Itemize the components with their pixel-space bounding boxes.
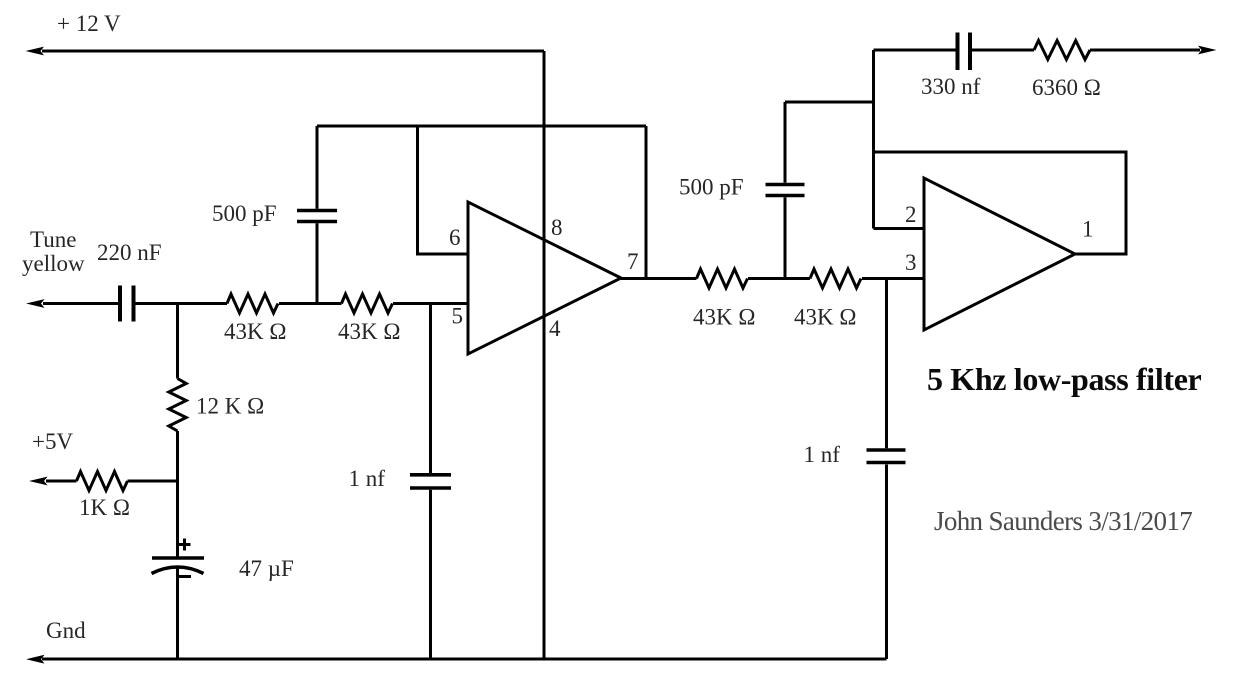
wire feedback riser [645, 126, 648, 279]
wire to pin 6 [418, 126, 469, 254]
svg-text:6: 6 [449, 225, 461, 250]
arrowhead +12V rail [26, 47, 45, 56]
wire R2 to op-amp U1 pin 5 [393, 302, 468, 305]
svg-text:2: 2 [905, 202, 917, 227]
svg-text:500 pF: 500 pF [679, 175, 744, 200]
svg-text:4: 4 [549, 316, 561, 341]
capacitor C7 plates [867, 450, 906, 463]
capacitor C2 curved plate [152, 567, 204, 574]
capacitor C1 220 nF [120, 286, 134, 322]
wire 12K to 47uF [176, 431, 179, 557]
wire R6 to U2 pin 3 [862, 277, 924, 280]
svg-text:43K Ω: 43K Ω [224, 319, 286, 344]
svg-text:5: 5 [452, 304, 464, 329]
wire R5 to R6 [748, 277, 810, 280]
wire output rail left [874, 49, 956, 52]
wire R1 to R2 [279, 302, 342, 305]
capacitor C3 500 pF upper branch [316, 126, 319, 304]
svg-text:43K Ω: 43K Ω [794, 305, 856, 330]
arrowhead output [1198, 46, 1217, 55]
resistor R1 43K [227, 294, 278, 313]
wire 47uF to ground [176, 567, 179, 659]
op-amp U2 [924, 178, 1075, 330]
capacitor C7 1 nf branch [885, 279, 888, 660]
wire C1 to R1 [136, 302, 228, 305]
wire C5 to R7 [972, 49, 1034, 52]
resistor R6 43K [810, 269, 861, 288]
wire ground rail [42, 658, 887, 661]
svg-text:3: 3 [905, 250, 917, 275]
svg-text:1: 1 [1082, 217, 1094, 242]
resistor R2 43K [342, 294, 393, 313]
wire +12V rail [42, 50, 544, 53]
op-amp U1 [468, 202, 621, 354]
svg-text:+5V: +5V [32, 429, 73, 454]
svg-text:Gnd: Gnd [46, 618, 86, 643]
capacitor C4 plates [766, 185, 805, 196]
arrowhead +5V [29, 477, 48, 486]
wire U2 feedback loop [874, 152, 1127, 254]
wire feedback node vertical [872, 50, 875, 229]
capacitor C2 47uF electrolytic plate [152, 556, 204, 560]
svg-text:7: 7 [627, 249, 639, 274]
capacitor C4 500 pF branch [784, 102, 787, 279]
svg-text:330 nf: 330 nf [921, 74, 981, 99]
svg-text:John Saunders 3/31/2017: John Saunders 3/31/2017 [934, 506, 1192, 536]
wire feedback top U1 [317, 125, 646, 128]
wire to U2 pin 2 [874, 227, 925, 230]
svg-text:1K Ω: 1K Ω [79, 495, 130, 520]
capacitor C2 minus sign [179, 575, 191, 578]
svg-text:43K Ω: 43K Ω [693, 305, 755, 330]
svg-text:8: 8 [551, 215, 563, 240]
svg-text:43K Ω: 43K Ω [338, 319, 400, 344]
svg-text:+ 12 V: + 12 V [57, 11, 121, 36]
svg-text:5 Khz low-pass filter: 5 Khz low-pass filter [927, 361, 1202, 397]
svg-text:yellow: yellow [22, 251, 85, 276]
capacitor C3 plates [297, 211, 337, 222]
wire C4 top to feedback node [785, 101, 874, 104]
arrowhead input [26, 299, 45, 308]
wire 1K to bias node [128, 480, 178, 483]
svg-text:12 K Ω: 12 K Ω [196, 394, 264, 419]
svg-text:Tune: Tune [30, 227, 76, 252]
arrowhead ground [26, 655, 45, 664]
wire V+ drop to pin 8 and pin 4 [543, 51, 546, 659]
capacitor C5 330 nf [958, 33, 971, 71]
capacitor C6 plates [410, 475, 451, 488]
svg-text:1 nf: 1 nf [804, 442, 841, 467]
node bias branch vertical [176, 304, 179, 379]
wire +5V stub [46, 480, 77, 483]
wire U1 output [621, 277, 697, 280]
svg-text:47 µF: 47 µF [239, 556, 294, 581]
svg-text:500 pF: 500 pF [212, 201, 277, 226]
svg-text:220 nF: 220 nF [97, 240, 162, 265]
resistor R7 6360 [1034, 41, 1090, 60]
wire R7 to output arrow [1090, 49, 1200, 52]
capacitor C6 1 nf branch [429, 304, 432, 660]
wire input stub [43, 302, 118, 305]
resistor R4 1K [77, 472, 128, 491]
svg-text:1 nf: 1 nf [349, 466, 386, 491]
resistor R3 12K vertical [169, 379, 186, 432]
resistor R5 43K [697, 269, 748, 288]
capacitor C2 plus sign [179, 539, 191, 551]
svg-text:6360 Ω: 6360 Ω [1032, 75, 1101, 100]
